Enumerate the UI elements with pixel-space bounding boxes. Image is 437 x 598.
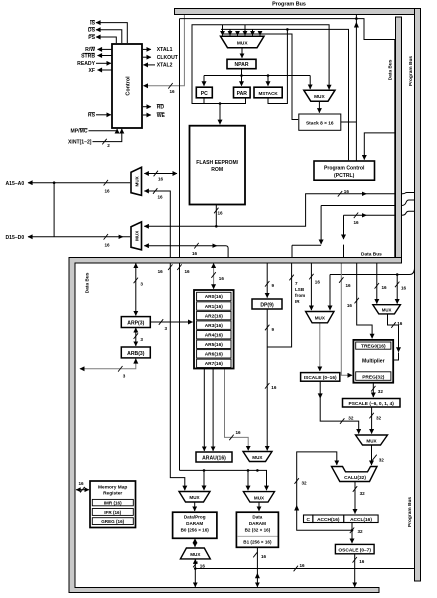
arau ARAU xyxy=(196,452,232,462)
svg-text:MUX: MUX xyxy=(134,230,139,241)
wire ring to MUX-T left xyxy=(310,263,312,310)
wire line3 jog over data bar xyxy=(395,211,415,215)
svg-text:DS: DS xyxy=(88,28,96,34)
svg-text:TREG0(16): TREG0(16) xyxy=(361,344,386,350)
svg-text:16: 16 xyxy=(300,563,306,568)
svg-text:XTAL2: XTAL2 xyxy=(157,63,173,69)
svg-text:CLKOUT: CLKOUT xyxy=(157,55,179,61)
svg-text:AR7(16): AR7(16) xyxy=(205,361,224,367)
slash MMR 16 xyxy=(80,487,84,493)
svg-text:IFR (16): IFR (16) xyxy=(104,510,121,515)
slash ARP-ARB 3 xyxy=(134,333,138,339)
svg-text:16: 16 xyxy=(271,385,277,390)
svg-text:FLASH EEPROM/: FLASH EEPROM/ xyxy=(196,160,238,166)
wire STRB xyxy=(98,55,112,57)
slash MUX-M right 16 xyxy=(395,282,399,288)
svg-text:32: 32 xyxy=(360,491,366,496)
memory DARAM B1/B2 xyxy=(236,512,278,547)
svg-text:MUX: MUX xyxy=(382,308,392,313)
wire D15-D0 xyxy=(28,236,130,238)
slash TREG0 16 xyxy=(355,298,359,304)
slash flash bottom 16 xyxy=(214,208,218,214)
overline MC xyxy=(79,127,87,130)
wire ARP to ARB xyxy=(135,328,137,346)
svg-text:MUX: MUX xyxy=(254,495,265,500)
svg-text:9: 9 xyxy=(272,283,275,288)
wire IS to control xyxy=(96,23,127,43)
svg-text:MP/MC: MP/MC xyxy=(71,129,88,135)
wire R/W xyxy=(98,48,112,50)
wire F program line top run xyxy=(180,19,395,258)
arrowhead ARB bottom up xyxy=(133,358,138,363)
svg-text:MUX: MUX xyxy=(252,455,263,460)
svg-text:32: 32 xyxy=(348,416,354,421)
wire program bus 16 to control xyxy=(143,15,184,86)
svg-text:RS: RS xyxy=(88,113,96,119)
svg-text:MUX: MUX xyxy=(366,438,377,443)
svg-text:IR: IR xyxy=(295,299,300,304)
svg-text:XF: XF xyxy=(88,68,95,74)
slash MUX3 inA 16 xyxy=(154,171,158,177)
wire W1 PC loop to stack mux xyxy=(192,25,329,104)
svg-text:ARB(3): ARB(3) xyxy=(127,351,145,357)
svg-text:ARP(3): ARP(3) xyxy=(127,321,144,327)
svg-text:3: 3 xyxy=(140,337,143,342)
wire MUX5 to B0 xyxy=(194,502,196,511)
svg-text:16: 16 xyxy=(158,194,164,199)
svg-text:AR3(16): AR3(16) xyxy=(205,323,224,329)
slash PSCALE out 32 xyxy=(369,413,373,419)
slash gray PREG 16 xyxy=(339,277,343,283)
memory DARAM B0 xyxy=(173,512,217,538)
svg-text:MUX: MUX xyxy=(134,175,139,186)
wire bottom run to program bar xyxy=(195,568,414,570)
slash ring left 16 a xyxy=(168,264,172,270)
svg-text:XINT[1–2]: XINT[1–2] xyxy=(68,139,92,145)
svg-text:16: 16 xyxy=(236,430,242,435)
arrowhead D line right xyxy=(119,235,124,239)
wire ring to MUX-M left xyxy=(376,263,378,304)
wire W2 bus to PCTRL xyxy=(221,29,349,160)
register MSTACK xyxy=(254,87,282,98)
register DP xyxy=(252,299,282,309)
slash PREG out 32 xyxy=(371,386,375,392)
slash feedback 32 xyxy=(295,478,299,484)
arrowhead line3 right xyxy=(362,213,367,217)
mux MUX2 (stack mux) xyxy=(304,90,335,101)
slash OSCALE out 16 xyxy=(353,557,357,563)
stack 8x16 xyxy=(299,114,341,130)
junction dots xyxy=(53,181,56,184)
slash MUX-C out 32 xyxy=(372,455,376,461)
svg-text:32: 32 xyxy=(376,416,382,421)
svg-text:16: 16 xyxy=(346,283,352,288)
wire RD xyxy=(143,106,151,108)
mux MUX5 (B0 input mux) xyxy=(179,492,210,503)
arrowhead MUX4 inB right xyxy=(213,244,218,248)
wire CALU to ACC xyxy=(354,482,356,514)
slash 7LSB 7 xyxy=(289,275,293,281)
svg-text:C: C xyxy=(306,517,310,523)
wire XTAL2 xyxy=(143,64,155,66)
svg-text:LSB: LSB xyxy=(295,287,305,292)
wire NPAR distribution row xyxy=(204,69,310,76)
scaler ISCALE xyxy=(301,373,340,382)
wire ARP to AR file xyxy=(150,321,192,323)
slash line3 16 xyxy=(354,213,358,219)
svg-text:16: 16 xyxy=(261,554,267,559)
svg-text:STRB: STRB xyxy=(81,53,95,59)
svg-text:Data Bus: Data Bus xyxy=(387,59,393,80)
program control PCTRL xyxy=(314,161,375,180)
mux MUX1 (program address mux) xyxy=(221,36,265,48)
slash control 16 xyxy=(168,83,172,89)
mux MUX4 (data pins mux) xyxy=(131,222,142,250)
svg-text:A15–A0: A15–A0 xyxy=(6,181,25,187)
svg-text:MUX: MUX xyxy=(189,495,200,500)
wire data bus to PCTRL xyxy=(364,133,395,160)
wire MUX3 input B long vertical xyxy=(144,191,185,490)
slash MUX4 inB 16 xyxy=(194,243,198,249)
multiplier block TREG0/PREG xyxy=(353,340,393,383)
svg-text:MUX: MUX xyxy=(314,94,325,100)
svg-text:16: 16 xyxy=(79,481,85,486)
svg-text:16: 16 xyxy=(382,285,388,290)
register file AR0-AR7 xyxy=(194,290,234,369)
wire line2 jog over data bar xyxy=(395,200,415,206)
svg-text:AR5(16): AR5(16) xyxy=(205,342,224,348)
control block U-CTRL xyxy=(112,44,142,128)
slash XINT 2 xyxy=(102,139,106,145)
overline DS xyxy=(89,26,95,29)
wire A15-A0 xyxy=(28,182,130,184)
svg-text:B1 (256 × 16): B1 (256 × 16) xyxy=(243,540,272,545)
wire ring to memory map register xyxy=(76,489,89,491)
slash A15 16 xyxy=(104,180,108,186)
svg-text:16: 16 xyxy=(158,177,164,182)
slash ARP-ARfile 3 xyxy=(159,319,163,325)
svg-text:PREG(32): PREG(32) xyxy=(362,374,385,380)
wire WE xyxy=(143,114,151,116)
wire MUX-C to CALU xyxy=(371,445,373,465)
svg-text:7: 7 xyxy=(295,281,298,286)
register ARB xyxy=(121,347,150,358)
svg-text:16: 16 xyxy=(359,559,365,564)
svg-text:16: 16 xyxy=(158,269,164,274)
overline RD xyxy=(157,103,164,106)
svg-text:32: 32 xyxy=(302,481,308,486)
wire ring to AR file bidirectional xyxy=(213,263,215,288)
wire ring to TREG0 xyxy=(357,263,372,338)
svg-text:MUX: MUX xyxy=(190,552,201,557)
wire READY xyxy=(96,62,111,64)
overline PS xyxy=(89,33,95,36)
wire MUX6 to bus bidirectional xyxy=(194,559,196,587)
wire B0 to MUX6 xyxy=(194,539,196,547)
program bus right bar xyxy=(415,9,421,582)
wire MUX1 feed arrows xyxy=(222,25,224,36)
svg-text:Stack 8 × 16: Stack 8 × 16 xyxy=(306,121,334,127)
wire line1 program/data to RAM muxes xyxy=(180,470,267,490)
wire ring to DP xyxy=(266,263,268,297)
wire ring to ARP xyxy=(135,263,137,315)
svg-text:16: 16 xyxy=(185,269,191,274)
svg-text:Data: Data xyxy=(252,514,262,519)
wire line3 data/program transfer xyxy=(344,214,396,216)
svg-text:Memory Map: Memory Map xyxy=(98,484,127,490)
mux MUX-M (multiplier input mux) xyxy=(373,305,401,314)
svg-text:OSCALE (0–7): OSCALE (0–7) xyxy=(338,547,371,553)
wire MUX-B to B2 xyxy=(258,502,260,511)
svg-text:ARAU(16): ARAU(16) xyxy=(202,455,226,461)
slash AR in 16 xyxy=(211,272,215,278)
svg-text:16: 16 xyxy=(347,303,353,308)
wire XINT[1-2] xyxy=(93,129,122,142)
slash B1 out 16 xyxy=(253,552,257,558)
svg-text:MSTACK: MSTACK xyxy=(258,91,278,96)
wire 7LSB from IR xyxy=(267,263,291,347)
slash CALU out 32 xyxy=(353,486,357,492)
slash MUX-M left 16 xyxy=(375,283,379,289)
wire MUX-M out to multiplier xyxy=(388,314,399,352)
svg-text:DARAM: DARAM xyxy=(249,521,266,526)
slash DP out 9 xyxy=(265,325,269,331)
wire PAR to flash row xyxy=(204,98,246,104)
svg-text:WE: WE xyxy=(157,113,166,119)
scaler PSCALE xyxy=(343,399,401,408)
svg-text:16: 16 xyxy=(105,189,111,194)
slash line1 16 xyxy=(338,191,342,197)
svg-text:16: 16 xyxy=(354,220,360,225)
svg-text:GREG (16): GREG (16) xyxy=(101,519,124,524)
slash DP merge 16 xyxy=(265,383,269,389)
slash ACC out 32 xyxy=(350,528,354,534)
wire MUX-M right input xyxy=(396,275,398,304)
wire flash bottom xyxy=(215,205,217,227)
mux MUX-A (ARAU side mux) xyxy=(243,452,272,462)
slash MUX3 inB 16 xyxy=(153,188,157,194)
arrowhead ISCALE out mid xyxy=(318,393,323,398)
wire DP/7LSB merged to MUX-A xyxy=(266,347,268,450)
svg-text:CALU(32): CALU(32) xyxy=(344,475,366,481)
svg-text:16: 16 xyxy=(219,276,225,281)
svg-text:ACCL(16): ACCL(16) xyxy=(350,517,372,523)
wire OSCALE to bus xyxy=(354,554,356,587)
svg-text:AR2(16): AR2(16) xyxy=(205,313,224,319)
slash MUX-M out 16 xyxy=(391,322,395,328)
data bus ring xyxy=(69,258,402,593)
svg-text:Program Bus: Program Bus xyxy=(272,2,306,8)
svg-text:Register: Register xyxy=(103,490,122,496)
wire line A MUX4/flash to program bus xyxy=(144,194,395,227)
slash ISCALE out 32 xyxy=(340,418,344,424)
wire flash top feed xyxy=(219,104,221,125)
wire RS xyxy=(96,114,111,116)
svg-text:AR4(16): AR4(16) xyxy=(205,332,224,338)
wire AR file to ARAU right xyxy=(212,369,214,451)
svg-text:3: 3 xyxy=(140,281,143,286)
wire XF xyxy=(98,69,112,71)
wire ACC to OSCALE xyxy=(351,530,353,543)
svg-text:DARAM: DARAM xyxy=(186,521,203,526)
svg-text:PAR: PAR xyxy=(237,91,248,97)
svg-text:3: 3 xyxy=(123,374,126,379)
mux MUX3 (address out mux) xyxy=(131,167,142,195)
svg-text:32: 32 xyxy=(358,529,364,534)
wire MUX3 input A xyxy=(144,173,177,175)
wire ring to PREG input xyxy=(341,263,352,375)
program bus top bar xyxy=(175,9,421,15)
wire DP out xyxy=(266,309,268,347)
svg-text:16: 16 xyxy=(105,243,111,248)
svg-text:16: 16 xyxy=(344,189,350,194)
svg-text:READY: READY xyxy=(77,61,95,67)
slash MUX-T left 16 xyxy=(309,274,313,280)
arrowhead B1 up xyxy=(255,573,260,578)
slash bottom run 16 xyxy=(294,566,298,572)
svg-text:Control: Control xyxy=(126,76,132,96)
wire B1 to bus xyxy=(256,547,258,587)
svg-text:3: 3 xyxy=(165,326,168,331)
wire PREG to PSCALE xyxy=(372,383,374,397)
wire MUX1 to NPAR xyxy=(241,48,243,58)
wire line2 data transfer xyxy=(321,206,395,245)
svg-text:IS: IS xyxy=(90,20,95,26)
overline WE xyxy=(157,111,165,114)
wire W3 to stack xyxy=(223,34,299,120)
svg-text:RD: RD xyxy=(157,105,165,111)
svg-text:ISCALE (0–16): ISCALE (0–16) xyxy=(304,375,337,381)
mux MUX6 (B0 output demux) xyxy=(180,548,210,559)
wire CLKOUT xyxy=(143,56,151,58)
wire MUX4 input B to data bus xyxy=(144,246,228,257)
wire PS to control xyxy=(96,37,116,43)
wire ARB to ring xyxy=(80,358,136,369)
svg-text:Program Bus: Program Bus xyxy=(407,497,413,527)
svg-text:16: 16 xyxy=(218,210,224,215)
overline IS xyxy=(90,19,95,22)
svg-text:AR1(16): AR1(16) xyxy=(205,304,224,310)
svg-text:DP(9): DP(9) xyxy=(260,302,274,308)
wire AR file to ARAU left xyxy=(203,369,205,451)
slash ring left 16 b xyxy=(177,264,181,270)
overline STRB xyxy=(83,52,95,55)
svg-text:16: 16 xyxy=(170,89,176,94)
svg-text:Data/Prog: Data/Prog xyxy=(184,514,206,519)
wire A/D junction vertical xyxy=(53,183,55,237)
wire ACC feedback to CALU xyxy=(297,452,352,530)
register ARP xyxy=(121,317,150,328)
svg-text:AR0(16): AR0(16) xyxy=(205,294,224,300)
alu CALU xyxy=(332,467,378,482)
svg-text:PSCALE (–6, 0, 1, 4): PSCALE (–6, 0, 1, 4) xyxy=(349,401,395,407)
scaler OSCALE xyxy=(335,544,374,553)
svg-text:XTAL1: XTAL1 xyxy=(157,47,173,53)
wire MUX-T out to ISCALE xyxy=(319,323,321,371)
wire XTAL1 xyxy=(143,48,151,50)
svg-text:MUX: MUX xyxy=(237,41,248,47)
slash ARP 3 xyxy=(134,278,138,284)
svg-text:16: 16 xyxy=(192,251,198,256)
svg-text:ROM: ROM xyxy=(211,167,223,173)
svg-text:Program Control: Program Control xyxy=(324,166,365,172)
data bus right bar xyxy=(396,17,402,263)
svg-text:from: from xyxy=(295,293,305,298)
svg-text:ACCH(16): ACCH(16) xyxy=(317,517,340,523)
wire MSTACK loop xyxy=(268,29,287,103)
register NPAR xyxy=(227,59,256,68)
svg-text:D15–D0: D15–D0 xyxy=(6,235,25,241)
accumulator C/ACCH/ACCL xyxy=(304,515,313,523)
wire PSCALE to MUX-C xyxy=(371,407,373,434)
svg-text:AR6(16): AR6(16) xyxy=(205,352,224,358)
arrowhead stack riser up xyxy=(354,22,359,28)
wire MUX2 to stack xyxy=(318,101,320,112)
slash DP in 9 xyxy=(265,281,269,287)
svg-text:2: 2 xyxy=(107,143,110,148)
wire AR file to MUX-A left xyxy=(225,369,249,451)
svg-text:Data Bus: Data Bus xyxy=(85,272,91,293)
svg-text:16: 16 xyxy=(397,321,403,326)
svg-text:PS: PS xyxy=(88,35,95,41)
svg-text:B2 (32 × 16): B2 (32 × 16) xyxy=(245,528,271,533)
svg-text:Program Bus: Program Bus xyxy=(408,56,414,86)
svg-text:Multiplier: Multiplier xyxy=(362,359,385,365)
mux MUX-C (CALU input mux) xyxy=(356,435,388,445)
svg-text:(PCTRL): (PCTRL) xyxy=(334,173,355,179)
slash MUX6 bus 16 xyxy=(193,562,197,568)
register PC xyxy=(196,87,212,98)
mux MUX-B (B1/B2 input mux) xyxy=(243,492,274,503)
slash MUX-A left 16 xyxy=(229,435,233,441)
svg-text:NPAR: NPAR xyxy=(234,62,248,68)
slash D15 16 xyxy=(104,234,108,240)
wire MP/MC xyxy=(89,129,118,131)
svg-text:16: 16 xyxy=(315,279,321,284)
flash eeprom/rom xyxy=(190,126,246,205)
wire DS to control xyxy=(96,30,122,43)
overline W of R/W xyxy=(90,46,95,49)
svg-text:Data Bus: Data Bus xyxy=(361,251,382,257)
svg-text:16: 16 xyxy=(401,285,407,290)
overline RS xyxy=(89,111,95,114)
arrowhead feedback up xyxy=(294,505,299,511)
svg-text:9: 9 xyxy=(272,327,275,332)
svg-text:B0 (256 × 16): B0 (256 × 16) xyxy=(181,528,210,533)
arrowhead line1 right xyxy=(362,192,367,196)
slash ARB out 3 xyxy=(118,366,122,372)
svg-text:PC: PC xyxy=(201,91,208,97)
wire program bar link to MUX-T right xyxy=(330,269,415,311)
register PAR xyxy=(234,87,251,98)
svg-text:MUX: MUX xyxy=(315,316,326,321)
svg-text:32: 32 xyxy=(378,389,384,394)
wire F program line vertical xyxy=(179,19,181,471)
svg-text:32: 32 xyxy=(379,458,385,463)
wire ISCALE to MUX-C xyxy=(320,381,359,433)
wire stack to program bus riser xyxy=(341,15,357,161)
svg-text:16: 16 xyxy=(200,564,206,569)
mux MUX-T (TREG input mux) xyxy=(306,312,334,323)
svg-text:IMR (16): IMR (16) xyxy=(104,501,122,506)
svg-text:R/W: R/W xyxy=(85,47,95,53)
memory map register block xyxy=(90,481,136,528)
wire line1 jog over data bar xyxy=(395,193,415,194)
